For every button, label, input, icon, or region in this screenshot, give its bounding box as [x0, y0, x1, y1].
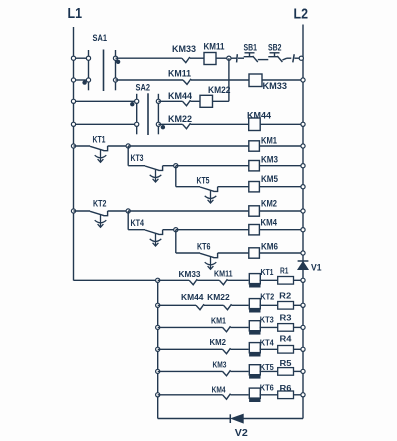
- svg-text:KT3: KT3: [131, 153, 144, 163]
- node SA1 left pole row2: [86, 78, 90, 82]
- switch SA2 right pole: [157, 94, 159, 135]
- node SA1 right pole row1: [113, 56, 117, 60]
- svg-text:R5: R5: [280, 359, 293, 368]
- wire KT6 to coil KM6: [218, 252, 249, 254]
- resistor R5: [278, 368, 294, 376]
- wire elbow L1 to bus: [74, 279, 158, 281]
- wire KT2 row left: [74, 210, 91, 212]
- contact KM3 bottom (NC): [223, 370, 231, 376]
- wire junction to coil KM1: [128, 145, 249, 147]
- svg-text:L2: L2: [294, 6, 309, 22]
- svg-text:KM11: KM11: [214, 270, 233, 279]
- contact KT4 (on-delay NO): [145, 230, 163, 246]
- svg-text:KM33: KM33: [263, 81, 288, 91]
- SA2 position dot right: [161, 125, 165, 129]
- svg-text:KT1: KT1: [93, 134, 106, 144]
- node row4 L2: [301, 122, 305, 126]
- wire cascade down 4: [175, 230, 177, 253]
- coil KM11: [204, 53, 216, 65]
- svg-text:KT4: KT4: [260, 339, 274, 348]
- contact KM22 bottom (NC): [224, 304, 232, 310]
- wire KT4 to junction: [163, 229, 176, 231]
- node after KM11 coil: [227, 56, 231, 60]
- coil KM3 label: [261, 155, 278, 165]
- wire junction to coil KM2: [128, 210, 249, 212]
- wire vertical link: [228, 58, 230, 101]
- contact KM11 bottom (NC): [219, 279, 227, 285]
- resistor R3: [278, 324, 294, 332]
- pushbutton SB2 label: [268, 42, 282, 52]
- node row C L2: [301, 325, 305, 329]
- wire row1 SA1 to KM33 contact: [116, 57, 182, 59]
- pushbutton SB1 label: [244, 42, 258, 52]
- node junction KT4: [174, 228, 178, 232]
- wire coil KM3 to L2: [259, 165, 303, 167]
- svg-text:SB1: SB1: [244, 42, 258, 52]
- wire row2 coil to L2: [262, 79, 303, 81]
- wire cascade down 2: [175, 166, 177, 187]
- coil KM44: [249, 118, 261, 131]
- wire row A to coil KT1: [227, 279, 248, 281]
- node SA2 right pole row3: [156, 99, 160, 103]
- wire row E R5 to L2: [294, 370, 304, 372]
- wire row F coil to R6: [260, 394, 278, 396]
- resistor R4 label: [280, 335, 293, 344]
- wire row D left: [158, 348, 223, 350]
- contact KM11 (NC): [183, 79, 191, 85]
- coil KT5 label: [260, 363, 274, 372]
- contact KM44 bottom label: [181, 293, 204, 302]
- node KM5 L2: [301, 185, 305, 189]
- contact KM2 bottom (NC): [223, 348, 231, 354]
- wire row A mid: [197, 279, 219, 281]
- node L1 row4: [71, 122, 75, 126]
- diode V2: [230, 414, 243, 423]
- svg-text:KT6: KT6: [197, 241, 211, 251]
- coil KT4: [249, 343, 260, 357]
- wire row4 L1 to SA2: [74, 123, 137, 125]
- resistor R6 label: [280, 384, 293, 393]
- coil KT1 label: [261, 268, 274, 277]
- contact KM33 bottom (NC): [189, 279, 197, 285]
- node row B L2: [301, 303, 305, 307]
- contact KT2 (on-delay NO): [90, 211, 108, 227]
- svg-text:KM22: KM22: [208, 85, 231, 95]
- resistor R4: [278, 346, 294, 354]
- svg-text:KT1: KT1: [261, 268, 274, 277]
- node junction KT2: [126, 209, 130, 213]
- wire coil KM4 to L2: [259, 229, 303, 231]
- svg-text:L1: L1: [68, 6, 83, 22]
- terminal tick left: [236, 54, 239, 62]
- svg-text:KT5: KT5: [197, 175, 210, 185]
- node bus row F: [156, 393, 160, 397]
- wire row4 SA2 to KM22 contact: [158, 123, 182, 125]
- contact KM4 bottom (NC): [223, 394, 231, 400]
- node junction KT3: [174, 164, 178, 168]
- wire row F left: [158, 394, 223, 396]
- coil KM3: [249, 161, 260, 171]
- svg-text:KT6: KT6: [260, 383, 274, 392]
- contact KM22 (NC): [183, 123, 191, 129]
- label L2: [294, 6, 309, 22]
- node SA2 right pole row4: [156, 122, 160, 126]
- coil KM2 label: [261, 199, 277, 209]
- contact KM4 bottom label: [212, 385, 226, 394]
- coil KT6: [249, 388, 260, 402]
- coil KM5 label: [261, 174, 278, 184]
- wire row1 coil to node: [216, 57, 229, 59]
- contact KM44 label: [168, 91, 192, 101]
- wire row1 tick to SB1: [238, 57, 244, 59]
- left rail L1: [73, 27, 75, 281]
- contact KM1 bottom (NC): [223, 326, 231, 332]
- switch SA1 label: [93, 33, 108, 43]
- contact KM3 bottom label: [213, 361, 227, 370]
- wire row E coil to R5: [260, 370, 278, 372]
- coil KM1: [249, 141, 260, 151]
- wire KT1 row left: [74, 145, 91, 147]
- wire row2 SA1 to KM11 contact: [116, 79, 184, 81]
- wire row C left: [158, 326, 223, 328]
- wire row A left: [158, 279, 190, 281]
- contact KT2 label: [93, 198, 107, 208]
- coil KM33: [249, 74, 262, 87]
- contact KT3 label: [131, 153, 144, 163]
- wire bottom right: [243, 418, 303, 420]
- contact KM33 label: [172, 44, 196, 54]
- wire row C to coil KT3: [231, 326, 249, 328]
- wire row D to coil KT4: [231, 348, 249, 350]
- svg-text:SA2: SA2: [136, 83, 151, 93]
- svg-text:KM5: KM5: [261, 174, 278, 184]
- wire cascade down 3: [127, 211, 129, 230]
- node L1 row1: [71, 56, 75, 60]
- wire row C R3 to L2: [294, 326, 304, 328]
- node L1 KT2: [71, 209, 75, 213]
- coil KT3: [249, 321, 260, 335]
- node SA1 left pole row1: [86, 56, 90, 60]
- svg-text:KM3: KM3: [261, 155, 278, 165]
- contact KT5 label: [197, 175, 210, 185]
- contact KM2 bottom label: [210, 338, 227, 347]
- node bus row B: [156, 303, 160, 307]
- wire row1 node to tick: [231, 57, 237, 59]
- wire KT2 to junction: [108, 210, 129, 212]
- wire row4 coil to L2: [260, 123, 303, 125]
- switch SA2 bar: [147, 93, 149, 135]
- node L1 row3: [71, 99, 75, 103]
- wire row F R6 to L2: [294, 394, 304, 396]
- wire row C coil to R3: [260, 326, 278, 328]
- contact KT6 label: [197, 241, 211, 251]
- node L1 row2: [71, 78, 75, 82]
- wire KT4 row left: [128, 229, 145, 231]
- svg-text:KM6: KM6: [261, 241, 278, 251]
- wire row F to coil KT6: [231, 394, 249, 396]
- contact KT4 label: [131, 218, 145, 228]
- node KM1 L2: [301, 144, 305, 148]
- resistor R2 label: [279, 291, 292, 300]
- coil KM22: [200, 95, 213, 107]
- wire bottom left: [158, 418, 231, 420]
- coil KM4 label: [261, 218, 278, 228]
- pushbutton SB1: [244, 53, 269, 62]
- svg-text:R4: R4: [280, 335, 293, 344]
- resistor R1: [278, 277, 294, 285]
- contact KM11 label: [168, 69, 191, 79]
- wire row B coil to R2: [260, 304, 278, 306]
- wire coil KM6 to L2: [259, 252, 303, 254]
- wire row1 tick to L2: [295, 57, 302, 59]
- wire row2 L1 to SA1: [74, 79, 89, 81]
- switch SA2 left pole: [136, 94, 138, 135]
- contact KM33 (NC): [182, 57, 190, 63]
- wire coil KM5 to L2: [259, 186, 303, 188]
- wire KT5 row left: [176, 186, 200, 188]
- coil KT2 label: [260, 293, 274, 302]
- svg-text:KT3: KT3: [260, 316, 274, 325]
- svg-text:KM3: KM3: [213, 361, 227, 370]
- resistor R6: [278, 391, 294, 399]
- wire row3 contact to coil KM22: [191, 100, 201, 102]
- diode V1: [298, 261, 309, 270]
- label L1: [68, 6, 83, 22]
- node bus row A: [156, 278, 160, 282]
- svg-text:KM44: KM44: [247, 111, 271, 121]
- svg-text:KM1: KM1: [261, 136, 277, 146]
- node L1 KT1: [71, 144, 75, 148]
- node row E L2: [301, 369, 305, 373]
- svg-text:SB2: SB2: [268, 42, 282, 52]
- coil KT5: [249, 365, 260, 379]
- svg-text:KM22: KM22: [207, 293, 230, 302]
- resistor R3 label: [280, 313, 293, 322]
- svg-text:R3: R3: [280, 313, 293, 322]
- contact KM11 bottom label: [214, 270, 233, 279]
- svg-text:KM2: KM2: [210, 338, 227, 347]
- node SA2 left pole row3: [135, 99, 139, 103]
- contact KT1 (on-delay NO): [90, 146, 108, 162]
- coil KM44 label: [247, 111, 271, 121]
- svg-text:SA1: SA1: [93, 33, 108, 43]
- node junction KT1: [126, 144, 130, 148]
- svg-text:KM4: KM4: [212, 385, 226, 394]
- coil KT2: [249, 299, 260, 313]
- node KM6 L2: [301, 251, 305, 255]
- contact KT6 (on-delay NO): [200, 253, 218, 269]
- node row F L2: [301, 393, 305, 397]
- diode V1 label: [311, 262, 322, 273]
- coil KM33 label: [263, 81, 288, 91]
- right rail L2: [302, 25, 304, 419]
- coil KT6 label: [260, 383, 274, 392]
- node bus row C: [156, 325, 160, 329]
- node SA2 left pole row4: [135, 122, 139, 126]
- svg-text:KM33: KM33: [172, 44, 196, 54]
- contact KT1 label: [93, 134, 106, 144]
- contact KM33 bottom label: [179, 270, 202, 279]
- resistor R5 label: [280, 359, 293, 368]
- svg-text:KM44: KM44: [181, 293, 204, 302]
- svg-text:KM2: KM2: [261, 199, 277, 209]
- coil KM6 label: [261, 241, 278, 251]
- node row D L2: [301, 347, 305, 351]
- wire KT6 row left: [176, 252, 200, 254]
- svg-text:KM4: KM4: [261, 218, 278, 228]
- svg-text:R1: R1: [280, 267, 289, 276]
- contact KM22 bottom label: [207, 293, 230, 302]
- wire KT5 to coil KM5: [218, 186, 249, 188]
- svg-text:KT2: KT2: [93, 198, 107, 208]
- switch SA1 left pole: [88, 50, 90, 90]
- wire cascade down 1: [127, 146, 129, 166]
- coil KM1 label: [261, 136, 277, 146]
- wire junction to coil KM3: [176, 165, 249, 167]
- coil KT4 label: [260, 339, 274, 348]
- coil KT3 label: [260, 316, 274, 325]
- coil KM5: [249, 182, 260, 192]
- wire row4 contact to coil KM44: [191, 123, 249, 125]
- svg-text:KT4: KT4: [131, 218, 145, 228]
- wire row3 L1 to SA2: [74, 100, 137, 102]
- coil KM11 label: [204, 42, 225, 52]
- node bus row E: [156, 369, 160, 373]
- wire row1 L1 to SA1: [74, 57, 89, 59]
- resistor R1 label: [280, 267, 289, 276]
- SA1 position dot right: [116, 60, 120, 64]
- wire row3 SA2 to KM44 contact: [158, 100, 182, 102]
- svg-text:KM44: KM44: [168, 91, 192, 101]
- svg-text:V1: V1: [311, 262, 322, 273]
- contact KT5 (on-delay NO): [200, 187, 218, 203]
- svg-text:V2: V2: [235, 427, 248, 439]
- coil KM2: [249, 206, 260, 216]
- coil KT1: [249, 274, 260, 288]
- svg-text:R2: R2: [279, 291, 292, 300]
- wire row E left: [158, 370, 223, 372]
- wire coil KM2 to L2: [259, 210, 303, 212]
- wire row B to coil KT2: [232, 304, 249, 306]
- svg-text:KM11: KM11: [168, 69, 191, 79]
- node SA1 right pole row2: [113, 78, 117, 82]
- resistor R2: [278, 302, 294, 310]
- wire KT3 to junction: [163, 165, 176, 167]
- wire row B R2 to L2: [294, 304, 304, 306]
- node KM3 L2: [301, 164, 305, 168]
- node KM2 L2: [301, 209, 305, 213]
- contact KM22 label: [168, 114, 192, 124]
- wire row E to coil KT5: [231, 370, 249, 372]
- coil KM6: [249, 248, 260, 258]
- wire row A coil to R1: [260, 279, 278, 281]
- switch SA1 bar: [103, 50, 105, 92]
- wire row D R4 to L2: [294, 348, 304, 350]
- contact KM44 bottom (NC): [196, 304, 204, 310]
- terminal tick right: [293, 54, 294, 62]
- node row1 L2: [299, 56, 303, 60]
- wire row A R1 to L2: [294, 279, 304, 281]
- wire row B mid: [204, 304, 224, 306]
- SA2 position dot left: [130, 102, 134, 106]
- wire row B left: [158, 304, 196, 306]
- coil KM4: [249, 225, 260, 235]
- SA1 position dot left: [82, 80, 86, 84]
- switch SA2 label: [136, 83, 151, 93]
- svg-text:KM22: KM22: [168, 114, 192, 124]
- wire KT3 row left: [128, 165, 145, 167]
- node KM4 L2: [301, 228, 305, 232]
- svg-text:R6: R6: [280, 384, 293, 393]
- wire KT1 to junction: [108, 145, 129, 147]
- coil KM22 label: [208, 85, 231, 95]
- svg-text:KT2: KT2: [260, 293, 274, 302]
- wire row1 contact to coil KM11: [190, 57, 204, 59]
- svg-text:KM1: KM1: [211, 316, 226, 325]
- wire junction to coil KM4: [176, 229, 249, 231]
- wire row3 coil to vertical link: [213, 100, 229, 102]
- contact KM1 bottom label: [211, 316, 226, 325]
- pushbutton SB2: [268, 53, 291, 62]
- wire coil KM1 to L2: [259, 145, 303, 147]
- contact KT3 (on-delay NO): [145, 166, 163, 182]
- node row2 L2: [301, 78, 305, 82]
- wire row2 contact to coil KM33: [191, 79, 249, 81]
- diode V2 label: [235, 427, 248, 439]
- switch SA1 right pole: [115, 50, 117, 90]
- wire row D coil to R4: [260, 348, 278, 350]
- svg-text:KM11: KM11: [204, 42, 225, 52]
- svg-text:KM33: KM33: [179, 270, 202, 279]
- node bus row D: [156, 347, 160, 351]
- contact KM44 (NC): [183, 100, 191, 106]
- vertical bus: [157, 280, 159, 418]
- node row A L2: [301, 278, 305, 282]
